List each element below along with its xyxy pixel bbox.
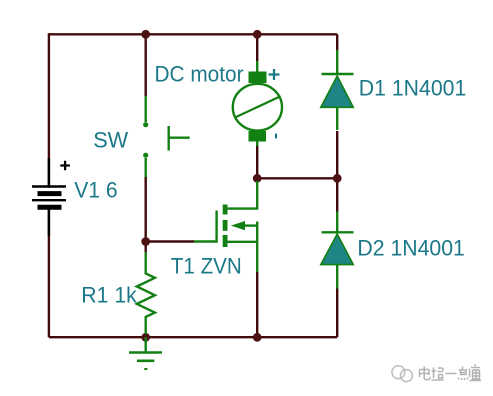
svg-text:D2 1N4001: D2 1N4001 — [357, 235, 465, 260]
svg-text:V1 6: V1 6 — [74, 178, 118, 203]
svg-text:R1 1k: R1 1k — [81, 283, 137, 308]
svg-text:DC motor: DC motor — [155, 62, 244, 87]
svg-text:T1 ZVN: T1 ZVN — [171, 254, 242, 279]
svg-text:SW: SW — [93, 128, 128, 153]
svg-text:D1 1N4001: D1 1N4001 — [359, 76, 467, 101]
